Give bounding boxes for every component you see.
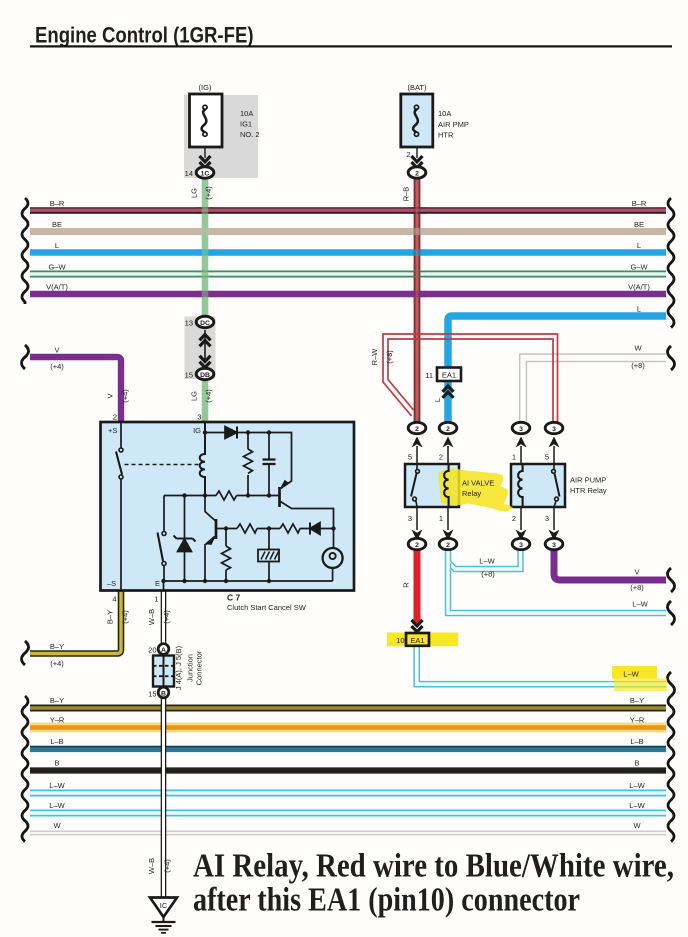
svg-text:IG: IG [193, 426, 201, 435]
svg-text:5: 5 [408, 453, 412, 462]
svg-text:2: 2 [415, 426, 419, 433]
svg-text:L: L [55, 241, 59, 250]
svg-text:10A: 10A [240, 109, 253, 118]
svg-text:LG: LG [190, 391, 199, 401]
svg-text:14: 14 [185, 169, 193, 178]
svg-text:(+4): (+4) [50, 362, 64, 371]
svg-text:V: V [106, 393, 115, 398]
svg-text:20: 20 [148, 646, 156, 655]
svg-text:10A: 10A [438, 109, 451, 118]
svg-text:AIR PMP: AIR PMP [438, 120, 469, 129]
svg-text:(+4): (+4) [121, 610, 130, 624]
svg-text:2: 2 [446, 426, 450, 433]
svg-text:15: 15 [148, 690, 156, 699]
svg-text:L–W: L–W [479, 557, 495, 566]
svg-text:G–W: G–W [630, 263, 648, 272]
svg-text:DC: DC [200, 320, 210, 327]
svg-text:11: 11 [425, 371, 433, 380]
svg-text:(BAT): (BAT) [407, 83, 427, 92]
svg-text:2: 2 [446, 542, 450, 549]
svg-text:B–R: B–R [632, 199, 647, 208]
svg-text:Clutch Start Cancel SW: Clutch Start Cancel SW [227, 603, 307, 612]
svg-text:B–Y: B–Y [50, 696, 64, 705]
svg-text:V(A/T): V(A/T) [46, 283, 68, 292]
svg-text:J 4(A), J 5(B): J 4(A), J 5(B) [174, 645, 183, 690]
svg-text:W: W [634, 344, 642, 353]
svg-text:15: 15 [185, 371, 193, 380]
svg-text:Connector: Connector [195, 650, 204, 685]
svg-text:10: 10 [396, 636, 404, 645]
svg-text:Junction: Junction [186, 654, 195, 682]
svg-text:(+8): (+8) [630, 583, 644, 592]
svg-text:W: W [633, 821, 641, 830]
svg-text:+S: +S [108, 426, 117, 435]
svg-text:L–B: L–B [630, 737, 643, 746]
svg-text:R–W: R–W [370, 348, 379, 366]
svg-text:EA1: EA1 [442, 371, 456, 380]
svg-text:Relay: Relay [462, 489, 481, 498]
svg-text:2: 2 [512, 514, 516, 523]
svg-text:V: V [54, 346, 59, 355]
svg-text:L–W: L–W [49, 801, 65, 810]
svg-text:3: 3 [545, 514, 549, 523]
svg-text:L–W: L–W [49, 781, 65, 790]
svg-text:(+4): (+4) [163, 859, 172, 873]
svg-text:L–W: L–W [623, 670, 639, 679]
svg-text:(+8): (+8) [385, 350, 394, 364]
svg-text:(IG): (IG) [199, 83, 212, 92]
svg-text:L: L [637, 305, 641, 314]
svg-text:B–Y: B–Y [630, 696, 644, 705]
svg-text:2: 2 [415, 542, 419, 549]
svg-text:1: 1 [154, 595, 158, 604]
svg-text:Engine Control (1GR-FE): Engine Control (1GR-FE) [35, 22, 254, 47]
svg-text:W: W [53, 821, 61, 830]
svg-text:(+4): (+4) [121, 389, 130, 403]
svg-text:(+4): (+4) [204, 389, 213, 403]
svg-text:(+4): (+4) [50, 659, 64, 668]
svg-text:2: 2 [439, 453, 443, 462]
svg-text:3: 3 [197, 413, 201, 422]
svg-text:R: R [402, 582, 411, 588]
svg-text:IC: IC [160, 901, 168, 910]
svg-text:3: 3 [519, 542, 523, 549]
svg-text:(+8): (+8) [481, 570, 495, 579]
svg-text:(+4): (+4) [204, 186, 213, 200]
svg-text:R–B: R–B [402, 187, 411, 202]
svg-text:3: 3 [552, 426, 556, 433]
svg-text:NO. 2: NO. 2 [240, 130, 260, 139]
svg-text:B–R: B–R [50, 199, 65, 208]
svg-text:B: B [161, 691, 166, 698]
svg-text:W–B: W–B [147, 609, 156, 625]
svg-text:2: 2 [406, 150, 410, 159]
svg-text:B: B [634, 759, 639, 768]
svg-text:L: L [433, 398, 442, 402]
svg-text:V: V [634, 568, 639, 577]
svg-text:BE: BE [634, 220, 644, 229]
svg-text:L–W: L–W [629, 781, 645, 790]
svg-text:Y–R: Y–R [630, 716, 645, 725]
svg-text:3: 3 [519, 426, 523, 433]
svg-text:3: 3 [552, 542, 556, 549]
svg-text:AIR PUMP: AIR PUMP [570, 476, 606, 485]
svg-text:L: L [637, 241, 641, 250]
svg-text:HTR Relay: HTR Relay [570, 486, 607, 495]
svg-text:G–W: G–W [48, 263, 66, 272]
svg-text:B–Y: B–Y [106, 610, 115, 624]
svg-text:3: 3 [408, 514, 412, 523]
svg-text:B: B [54, 759, 59, 768]
svg-text:1C: 1C [201, 170, 210, 177]
svg-text:AI VALVE: AI VALVE [462, 479, 494, 488]
svg-text:2: 2 [415, 170, 419, 177]
svg-text:L–B: L–B [50, 737, 63, 746]
svg-text:L–W: L–W [629, 801, 645, 810]
svg-text:2: 2 [113, 413, 117, 422]
svg-text:after this EA1 (pin10) connect: after this EA1 (pin10) connector [193, 881, 580, 918]
svg-text:W–B: W–B [147, 858, 156, 874]
svg-text:LG: LG [190, 188, 199, 198]
svg-text:IG1: IG1 [240, 120, 252, 129]
svg-text:V(A/T): V(A/T) [628, 283, 650, 292]
svg-text:(+4): (+4) [162, 610, 171, 624]
svg-text:Y–R: Y–R [50, 716, 65, 725]
svg-text:B–Y: B–Y [50, 642, 64, 651]
svg-text:13: 13 [185, 319, 193, 328]
svg-text:EA1: EA1 [410, 636, 424, 645]
svg-text:1: 1 [512, 453, 516, 462]
svg-text:BE: BE [52, 220, 62, 229]
svg-text:4: 4 [112, 595, 116, 604]
svg-text:5: 5 [545, 453, 549, 462]
svg-text:1: 1 [439, 514, 443, 523]
svg-text:C 7: C 7 [227, 593, 241, 603]
svg-text:AI Relay, Red wire to Blue/Whi: AI Relay, Red wire to Blue/White wire, [193, 848, 674, 885]
svg-text:E: E [155, 579, 160, 588]
svg-text:–S: –S [107, 579, 116, 588]
svg-text:HTR: HTR [438, 131, 454, 140]
svg-text:(+8): (+8) [631, 361, 645, 370]
svg-text:L–W: L–W [632, 600, 648, 609]
svg-text:DB: DB [200, 372, 210, 379]
svg-text:A: A [161, 647, 166, 654]
